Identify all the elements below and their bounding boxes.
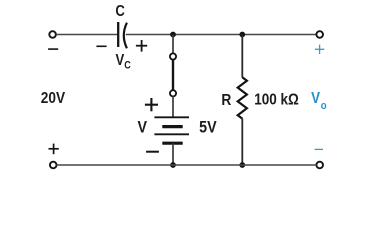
label VC (116, 52, 131, 72)
battery V (154, 117, 189, 143)
svg-text:V: V (116, 52, 125, 69)
resistor R (238, 77, 247, 118)
svg-text:5V: 5V (199, 119, 217, 137)
terminal top-right (316, 31, 323, 38)
wire from lower connector terminal to battery (172, 96, 174, 117)
terminal bottom-right (316, 162, 323, 169)
svg-text:R: R (221, 91, 231, 109)
svg-text:V: V (311, 90, 320, 107)
svg-text:20V: 20V (41, 90, 65, 107)
wire top left segment (56, 34, 117, 36)
svg-text:C: C (115, 3, 125, 20)
junction node battery bottom (170, 162, 176, 168)
wire top right segment (126, 34, 317, 36)
connector terminal upper (170, 53, 176, 59)
label minus of 20V source (48, 48, 58, 50)
label plus of capacitor (136, 40, 147, 52)
svg-text:V: V (137, 119, 147, 137)
label minus of output (315, 148, 323, 150)
connector blade wire (172, 60, 174, 90)
wire from battery to bottom (172, 143, 174, 165)
capacitor C (118, 22, 127, 48)
label Vo (311, 90, 327, 112)
junction node resistor bottom (239, 162, 245, 168)
wire resistor bottom lead (241, 119, 243, 166)
label plus of output (315, 45, 324, 54)
wire from node A to upper connector terminal (172, 35, 174, 54)
connector terminal lower (170, 90, 176, 96)
label plus of battery (145, 98, 158, 111)
svg-text:C: C (124, 60, 131, 72)
junction node B (239, 32, 245, 38)
terminal top-left (49, 31, 56, 38)
svg-text:o: o (321, 99, 327, 112)
label plus of 20V source (49, 144, 59, 155)
terminal bottom-left (50, 162, 57, 169)
label minus of capacitor (96, 45, 106, 47)
junction node A (170, 32, 176, 38)
wire resistor top lead (241, 35, 243, 78)
label minus of battery (146, 151, 159, 153)
svg-text:100 kΩ: 100 kΩ (254, 91, 299, 108)
wire bottom (57, 164, 317, 166)
